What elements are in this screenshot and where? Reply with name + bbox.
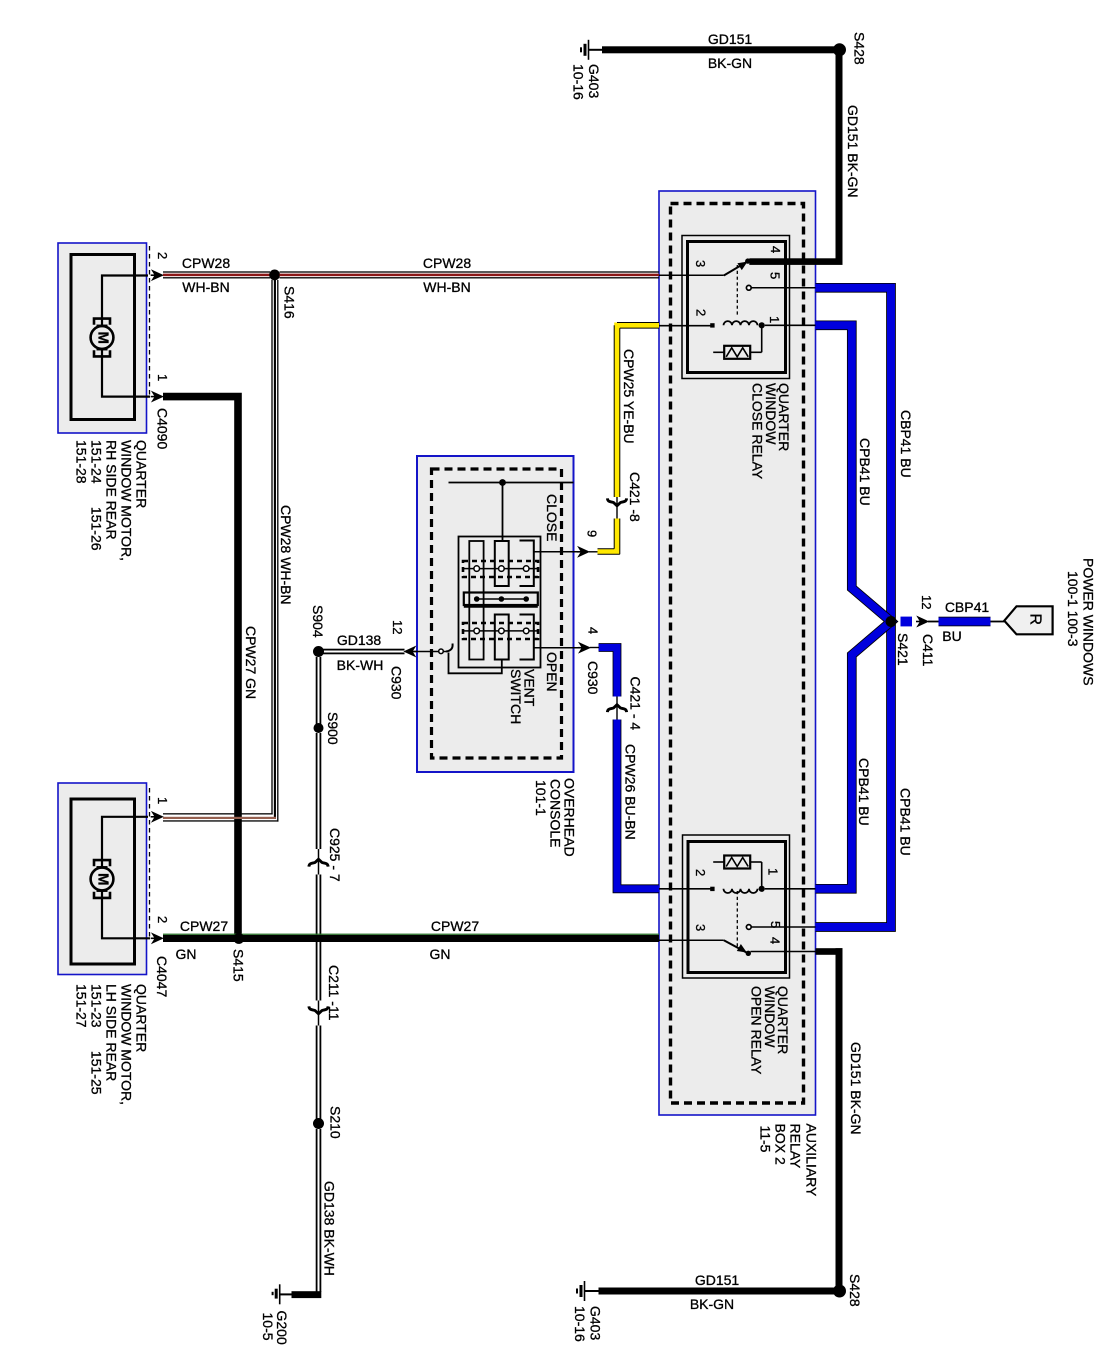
svg-text:S428: S428 <box>847 1274 863 1307</box>
close relay coil <box>618 325 712 327</box>
svg-text:1: 1 <box>155 374 170 381</box>
vent switch body <box>459 537 541 668</box>
svg-text:C4090: C4090 <box>154 408 170 449</box>
svg-text:RH SIDE REAR: RH SIDE REAR <box>103 440 119 540</box>
open relay switch pin3 lead <box>659 939 724 941</box>
svg-text:10-16: 10-16 <box>570 64 586 100</box>
svg-text:S210: S210 <box>327 1106 343 1139</box>
connector C4090 pin 1 arrow <box>152 392 163 402</box>
svg-text:S421: S421 <box>895 633 911 666</box>
svg-text:CPW26 BU-BN: CPW26 BU-BN <box>622 744 638 840</box>
svg-text:GN: GN <box>176 946 197 962</box>
vent switch common return path <box>449 653 502 674</box>
svg-text:LH SIDE REAR: LH SIDE REAR <box>103 984 119 1081</box>
quarter window motor LH box <box>58 783 147 975</box>
auxiliary relay box 2 outline <box>659 191 816 1115</box>
wire vertical C925-C211 <box>316 875 318 1001</box>
connector C925-7 chevron <box>318 849 320 875</box>
svg-text:C421 - 4: C421 - 4 <box>627 677 643 731</box>
wire GD151 BK-GN (bottom horizontal) <box>585 1290 601 1292</box>
svg-text:GD151 BK-GN: GD151 BK-GN <box>845 105 861 198</box>
svg-text:C925 - 7: C925 - 7 <box>327 828 343 882</box>
connector C930 arrow (pin 12) <box>405 647 416 657</box>
svg-text:C411: C411 <box>920 634 936 667</box>
close relay switch pivot <box>745 258 750 263</box>
svg-text:1: 1 <box>767 316 782 323</box>
svg-text:POWER WINDOWS: POWER WINDOWS <box>1080 558 1096 686</box>
relay quarter window close relay inner box <box>688 242 786 373</box>
svg-text:S900: S900 <box>325 712 341 745</box>
close relay pin 4 wire (thick) <box>749 258 842 265</box>
svg-text:WH-BN: WH-BN <box>423 279 470 295</box>
svg-text:BK-WH: BK-WH <box>337 657 384 673</box>
svg-text:2: 2 <box>155 916 170 923</box>
svg-text:100-1 100-3: 100-1 100-3 <box>1065 571 1081 647</box>
motor LH pin2 wire <box>102 891 150 939</box>
svg-text:GD151 BK-GN: GD151 BK-GN <box>848 1042 864 1135</box>
svg-text:4: 4 <box>586 627 601 634</box>
svg-text:CPW27: CPW27 <box>180 918 228 934</box>
close relay pin 5 lead <box>746 285 751 290</box>
connector C211-11 chevron <box>318 1001 320 1026</box>
svg-text:12: 12 <box>919 595 934 609</box>
svg-text:BU: BU <box>942 628 961 644</box>
svg-text:OPEN RELAY: OPEN RELAY <box>748 986 764 1075</box>
relay quarter window open relay outer box <box>683 835 790 978</box>
svg-text:R: R <box>1026 614 1043 626</box>
wire GD151 BK-GN (top horizontal) <box>589 49 604 51</box>
svg-text:CPW28: CPW28 <box>423 255 471 271</box>
wire CPW25 YE-BU <box>617 325 659 497</box>
svg-text:WINDOW MOTOR,: WINDOW MOTOR, <box>118 440 134 561</box>
svg-text:CPW25 YE-BU: CPW25 YE-BU <box>621 349 637 444</box>
close relay resistor <box>761 325 763 352</box>
svg-text:SWITCH: SWITCH <box>508 669 524 724</box>
vent switch left contact bar <box>469 541 483 660</box>
wire CPW25 YE-BU lower <box>598 519 618 552</box>
vent switch pin 9 lead and arrow <box>534 551 581 553</box>
wire GD151 BK-GN (top vertical) <box>836 53 843 264</box>
wire CPB41 BU outer (close pin5 to S421 to open pin5) <box>816 288 892 927</box>
svg-text:9: 9 <box>585 530 600 537</box>
motor RH pin1 wire <box>102 349 150 397</box>
junction S428 (bottom) <box>833 1285 846 1298</box>
svg-text:4: 4 <box>768 246 783 253</box>
connector R (power windows) <box>1004 606 1052 634</box>
svg-text:GN: GN <box>430 946 451 962</box>
svg-text:C4047: C4047 <box>154 956 170 997</box>
svg-text:4: 4 <box>768 937 783 944</box>
vent switch open bracket <box>520 615 534 660</box>
junction S210 <box>313 1118 324 1129</box>
svg-text:CPW27: CPW27 <box>431 918 479 934</box>
svg-text:OPEN: OPEN <box>544 652 560 692</box>
svg-text:WINDOW MOTOR,: WINDOW MOTOR, <box>118 984 134 1105</box>
wire CPW28 WH-BN (motor to S416) <box>163 271 270 272</box>
svg-text:C930: C930 <box>585 661 601 695</box>
connector C4090 pin 2 arrow <box>152 270 163 280</box>
svg-text:3: 3 <box>693 924 708 931</box>
svg-text:BOX 2: BOX 2 <box>772 1124 788 1165</box>
svg-text:CPB41 BU: CPB41 BU <box>856 758 872 826</box>
svg-text:CBP41: CBP41 <box>945 599 990 615</box>
svg-text:1: 1 <box>155 797 170 804</box>
svg-text:CPW27 GN: CPW27 GN <box>243 626 259 699</box>
motor M (RH) <box>94 319 110 325</box>
wire CPW26 BU-BN lower <box>617 720 659 889</box>
wire CPB41 BU inner (close pin1 to S421 to open pin1) <box>816 325 892 889</box>
svg-text:151-28: 151-28 <box>73 440 89 484</box>
wire CPW26 BU-BN upper <box>599 648 617 697</box>
vent switch close bracket <box>520 541 534 587</box>
svg-text:2: 2 <box>694 309 709 316</box>
quarter window motor RH box <box>58 243 147 433</box>
junction S904 <box>313 646 324 657</box>
vent switch pin 4 lead and arrow <box>534 647 582 649</box>
svg-text:C211 -11: C211 -11 <box>326 965 342 1021</box>
svg-text:151-23 151-25: 151-23 151-25 <box>88 984 104 1095</box>
auxiliary relay box dashed border <box>671 204 804 1104</box>
svg-text:GD151: GD151 <box>708 31 753 47</box>
wire GD138 vertical S904-S900 <box>316 657 318 728</box>
vent switch common bar <box>464 593 538 606</box>
junction S428 (top) <box>833 43 846 56</box>
svg-text:CBP41 BU: CBP41 BU <box>898 410 914 478</box>
junction S900 <box>314 723 324 733</box>
vent switch pin 12 lead <box>415 651 447 653</box>
open relay pin 5 lead <box>746 925 751 930</box>
close relay switch contact arm <box>724 262 748 276</box>
svg-text:151-24 151-26: 151-24 151-26 <box>88 440 104 551</box>
wire CPW28 WH-BN (to LH motor pin1) <box>163 813 273 814</box>
svg-text:5: 5 <box>768 272 783 279</box>
wire vertical C211-S210 <box>316 1026 318 1124</box>
relay quarter window open relay inner box <box>688 842 786 973</box>
svg-text:M: M <box>95 873 112 886</box>
svg-text:C421 -8: C421 -8 <box>627 472 643 522</box>
connector C411 stub and arrow <box>901 617 913 627</box>
svg-text:S904: S904 <box>310 605 326 638</box>
motor M (LH) <box>94 860 110 866</box>
svg-text:S428: S428 <box>851 32 867 65</box>
svg-text:3: 3 <box>693 260 708 267</box>
wire CPW28 WH-BN vertical (S416 to LH motor) <box>271 280 272 815</box>
connector C421-4 chevron <box>607 705 626 712</box>
svg-text:10-16: 10-16 <box>572 1306 588 1342</box>
open relay switch contact arm <box>724 940 747 952</box>
junction S415 <box>233 933 244 944</box>
svg-text:GD151: GD151 <box>695 1272 740 1288</box>
motor LH pin1 wire <box>102 817 148 868</box>
svg-text:11-5: 11-5 <box>758 1126 774 1153</box>
open relay resistor <box>761 862 763 889</box>
vent switch open contact row <box>463 623 538 639</box>
close relay pivot dashed line <box>736 265 738 316</box>
open relay coil <box>618 888 712 890</box>
motor LH connector face dashes <box>149 788 151 940</box>
svg-text:1: 1 <box>766 868 781 875</box>
relay quarter window close relay outer box <box>682 236 790 379</box>
svg-text:M: M <box>95 332 112 345</box>
svg-text:2: 2 <box>693 869 708 876</box>
junction S421 <box>886 616 897 627</box>
svg-text:10-5: 10-5 <box>260 1313 276 1341</box>
svg-text:CLOSE: CLOSE <box>544 494 560 541</box>
svg-text:G403: G403 <box>586 64 602 98</box>
svg-text:101-1: 101-1 <box>533 780 549 816</box>
svg-text:CLOSE RELAY: CLOSE RELAY <box>749 383 765 480</box>
svg-text:RELAY: RELAY <box>788 1124 804 1170</box>
svg-text:C930: C930 <box>388 666 404 700</box>
open relay pivot dashed line <box>736 891 738 948</box>
connector C4047 pin 1 arrow <box>152 812 163 822</box>
wire vertical S900-C925 <box>316 733 318 849</box>
svg-text:CPB41 BU: CPB41 BU <box>857 438 873 506</box>
wire GD138 BK-WH (horizontal) <box>322 649 404 651</box>
svg-text:QUARTER: QUARTER <box>133 440 149 508</box>
wire CPW27 GN horizontal <box>163 935 659 942</box>
svg-text:12: 12 <box>390 620 405 634</box>
overhead console dashed border <box>432 469 562 758</box>
svg-text:CPB41 BU: CPB41 BU <box>897 788 913 856</box>
vent switch close feed node <box>449 482 574 484</box>
open relay pin4 wire (thick) <box>816 948 843 955</box>
ground G403 (bottom) <box>584 1281 586 1301</box>
connector C421-8 chevron <box>607 498 626 505</box>
vent switch close contact row <box>463 561 538 577</box>
svg-text:S416: S416 <box>281 286 297 319</box>
svg-text:151-27: 151-27 <box>73 984 89 1028</box>
svg-text:QUARTER: QUARTER <box>133 984 149 1052</box>
svg-text:S415: S415 <box>230 949 246 982</box>
svg-text:2: 2 <box>155 252 170 259</box>
svg-text:CPW28: CPW28 <box>182 255 230 271</box>
svg-text:CPW28 WH-BN: CPW28 WH-BN <box>278 505 294 605</box>
motor RH connector face dashes <box>149 246 151 396</box>
svg-text:GD138 BK-WH: GD138 BK-WH <box>321 1181 337 1276</box>
connector C4047 pin 2 arrow <box>152 934 163 944</box>
wire CPW28 WH-BN (S416 to close relay) <box>280 271 660 272</box>
svg-text:GD138: GD138 <box>337 632 382 648</box>
open relay switch pivot <box>746 951 751 956</box>
junction S416 <box>269 270 280 281</box>
motor RH pin2 wire <box>102 276 148 327</box>
wire CBP41 BU (to power windows) <box>939 617 991 627</box>
wire CPW27 GN vertical (RH motor to S415) <box>163 397 238 939</box>
svg-text:BK-GN: BK-GN <box>690 1296 734 1312</box>
overhead console box <box>417 456 574 772</box>
svg-text:G403: G403 <box>587 1306 603 1340</box>
ground G200 <box>280 1293 292 1295</box>
svg-text:WH-BN: WH-BN <box>182 279 229 295</box>
close relay switch pin3 lead <box>659 274 724 276</box>
wire GD138 BK-WH vertical to ground <box>316 1129 318 1292</box>
vent switch close plunger <box>495 541 509 586</box>
svg-text:AUXILIARY: AUXILIARY <box>804 1124 820 1198</box>
svg-text:BK-GN: BK-GN <box>708 55 752 71</box>
ground G403 (top) <box>588 40 590 60</box>
vent switch open plunger <box>495 615 509 660</box>
